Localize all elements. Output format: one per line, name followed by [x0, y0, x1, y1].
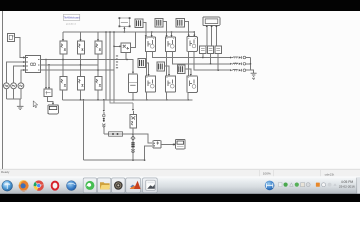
wire P1 to mosfet M1 gate: [143, 23, 146, 37]
leg wire phase c: [97, 54, 99, 77]
scope G2: [176, 140, 185, 149]
svg-text:youtube.in: youtube.in: [66, 23, 77, 26]
RLC load row 2: [230, 63, 250, 66]
wire source Vb to neutral bus: [13, 89, 15, 100]
bottom return wire: [83, 159, 144, 161]
junction dot bottom: [132, 160, 133, 161]
tray icon 7: [316, 183, 320, 187]
source block B1 (top-left): [8, 34, 15, 42]
phase wire 1 to load: [152, 52, 230, 58]
wire Q5 to DC- bus: [80, 90, 82, 100]
DC link vertical wire 1: [105, 32, 107, 100]
AC voltage source Vc: [18, 83, 24, 89]
leg wire phase a: [62, 54, 64, 77]
open-app button (MATLAB): [126, 178, 141, 193]
voltage measurement block VM3: [215, 46, 221, 53]
wire F2 to chain junction: [123, 133, 134, 135]
voltage measurement block VM2: [207, 46, 213, 53]
voltage measurement block VM1: [200, 46, 206, 53]
wire rail to IGBT Q2: [80, 32, 82, 40]
ground symbol G1: [17, 106, 24, 109]
DC- bus wire: [62, 99, 192, 101]
tray pinned blue icon: [265, 181, 275, 191]
svg-text:100%: 100%: [263, 171, 271, 175]
RLC load row 3: [230, 69, 250, 72]
pulse generator bars block P2: [155, 19, 163, 28]
wire M6 to DC- bus: [187, 92, 189, 100]
open-app button (white window): [143, 178, 158, 193]
wire F1 corner to parallel branch: [104, 133, 109, 135]
snubber block X1: [130, 111, 137, 128]
wire DC link below bus to snubber chain: [110, 100, 134, 109]
wire X1 down through junction: [132, 128, 134, 160]
wire source Va to neutral bus: [5, 89, 7, 100]
wire M4 to DC- bus: [146, 92, 148, 100]
pulse generator bars block P3: [176, 19, 185, 28]
scope L2: [48, 105, 58, 114]
pulse generator bars block P1: [135, 19, 143, 28]
firefox icon: [19, 180, 29, 191]
AC voltage source Va: [4, 83, 10, 89]
open-app button (whatsapp): [83, 178, 96, 193]
wire transformer to source Va: [6, 62, 24, 83]
wire P2 to mosfet M2 gate: [163, 22, 166, 37]
parallel RLC branch F2 (horizontal): [109, 132, 123, 136]
annotation link block "TheWhiteboard": [63, 14, 80, 20]
wire transformer to source Vc: [21, 70, 25, 83]
block H2 (diode/converter): [121, 43, 130, 52]
wire P4 to mosfet M4 gate: [146, 63, 149, 75]
wire DC link to block H2: [114, 45, 120, 47]
wire M1 source chain down to M4: [146, 52, 148, 76]
wire G to scope G2: [161, 143, 173, 145]
svg-text:ode23t: ode23t: [325, 173, 335, 177]
IGBT Q4: [60, 77, 67, 91]
tray icon 8: [322, 183, 326, 187]
tray icon 1: [279, 182, 282, 186]
measurement block G (current/voltage): [153, 141, 161, 149]
wire VM1 down to phase 1: [202, 54, 204, 58]
tap wire to measurement L1 port 2: [48, 65, 50, 88]
wire VM3 up to scope S1: [215, 27, 217, 47]
wire B: transformer out 2: [41, 64, 99, 66]
IGBT Q5: [77, 77, 84, 91]
taskbar: [0, 177, 360, 194]
wire P6 to mosfet M6 gate: [185, 69, 191, 75]
load common wire: [250, 58, 252, 71]
DC link vertical wire 3: [113, 32, 115, 100]
tray icon 6: [306, 183, 310, 187]
svg-text:4:05 PM: 4:05 PM: [341, 180, 354, 184]
wire M5 to DC- bus: [166, 92, 168, 100]
junction dots on transformer wires: [45, 59, 127, 71]
AC voltage source Vb: [11, 83, 17, 89]
top black letterbox bar: [0, 0, 360, 11]
wire Q6 to DC- bus: [97, 90, 99, 100]
wire VM3 down to phase 3: [217, 54, 219, 71]
IGBT Q2: [77, 41, 84, 54]
tap wire to measurement L1 port 1: [45, 60, 47, 89]
wire P5 to mosfet M5 gate: [164, 66, 169, 75]
tray icon 9: [328, 183, 332, 187]
wire M2 source chain down to M5: [166, 52, 168, 76]
measurement block L1: [44, 89, 52, 97]
phase wire 2 to load: [172, 52, 230, 64]
wire rail to mosfet M3 drain: [193, 32, 195, 36]
phase wire 3 to load: [194, 51, 230, 70]
wire Q4 to DC- bus: [61, 90, 63, 100]
mosfet M1 (top row): [145, 37, 155, 52]
start orb: [2, 181, 13, 192]
DC+ rail wire: [63, 31, 194, 33]
wire H2 output up to rail: [131, 32, 136, 48]
DC source block J: [129, 74, 138, 93]
branch chain 1: bus to filter: [103, 100, 105, 111]
wire L1 to scope L2: [48, 97, 54, 104]
show desktop separator: [356, 178, 358, 194]
three-phase transformer T1: [25, 56, 40, 73]
ground symbol G2 (load): [251, 73, 257, 79]
blue ball icon: [67, 181, 77, 191]
bottom black letterbox bar: [0, 194, 360, 202]
wire B1 to transformer port A: [15, 38, 24, 58]
wire transformer to source Vb: [14, 66, 25, 83]
series RLC branch F1 (vertical): [102, 112, 105, 134]
opera icon: [50, 181, 60, 191]
wire rail up to scope0: [123, 28, 125, 32]
tray icon 2: [284, 183, 288, 187]
junction dots on DC- bus: [80, 99, 189, 100]
vertical label marks (bus label): [116, 55, 118, 68]
wire junction to measurement G: [133, 134, 152, 143]
junction dots on rail: [105, 31, 195, 32]
series RLC branch F3 glyphs: [131, 136, 135, 153]
tray icon 4: [295, 183, 299, 187]
wire source Vc to neutral bus: [20, 89, 22, 100]
scope0 (selected block): [119, 17, 131, 27]
wire C: transformer out 3: [41, 69, 115, 71]
wire bottom return up to measurement G: [145, 146, 152, 160]
wire rail to mosfet M1 drain: [151, 32, 153, 36]
tray icon 3: [290, 183, 294, 187]
tray icon 5: [301, 183, 305, 187]
mosfet M5 (bottom row): [165, 76, 175, 92]
mosfet M3 (top row): [187, 37, 197, 52]
wire VM1 up to scope S1: [206, 27, 208, 47]
wire VM2 up to scope S1: [211, 27, 213, 47]
leg wire phase b: [80, 54, 82, 77]
wire J bottom to DC- bus: [132, 92, 134, 100]
mosfet M6 (bottom row): [187, 76, 198, 93]
IGBT Q3: [95, 41, 102, 54]
status bar: [0, 169, 360, 177]
pulse bars block P6 (lower row col3): [177, 65, 185, 74]
svg-text:Ready: Ready: [1, 170, 10, 174]
RLC load row 1: [230, 56, 250, 59]
model window left border: [2, 11, 4, 169]
mouse cursor: [33, 101, 38, 108]
wire to load ground: [251, 70, 254, 73]
wire rail to IGBT Q1: [62, 32, 64, 40]
wire M3 source chain down to M6: [187, 51, 189, 76]
IGBT Q6: [95, 77, 102, 91]
pulse bars block P4 (lower row col1): [138, 59, 146, 68]
wire P3 to mosfet M3 gate: [185, 22, 189, 36]
chrome icon: [34, 180, 44, 190]
wire A: transformer out 1 to DC block J: [41, 60, 134, 73]
DC link vertical wire 2: [109, 32, 111, 100]
open-app button (dark app): [112, 178, 125, 193]
wire rail to IGBT Q3: [97, 32, 99, 40]
pulse bars block P5 (lower row col2): [157, 62, 165, 71]
svg-text:25-02-2016: 25-02-2016: [339, 185, 355, 189]
mosfet M4 (bottom row): [145, 76, 155, 92]
wire neutral to ground: [19, 99, 21, 106]
neutral bus wire: [6, 98, 21, 100]
open-app button (explorer folder): [97, 178, 110, 193]
mosfet M2 (top row): [165, 37, 175, 52]
svg-text:TheWhiteboard: TheWhiteboard: [63, 17, 80, 20]
wire H2 bottom to wire A: [125, 52, 127, 59]
wire rail to mosfet M2 drain: [171, 32, 173, 36]
wire VM2 down to phase 2: [210, 54, 212, 64]
IGBT Q1: [60, 41, 67, 54]
tray icon 10: [333, 183, 336, 185]
wide scope S1 (top): [203, 17, 220, 25]
long return wire from DC- bus: [82, 100, 84, 160]
